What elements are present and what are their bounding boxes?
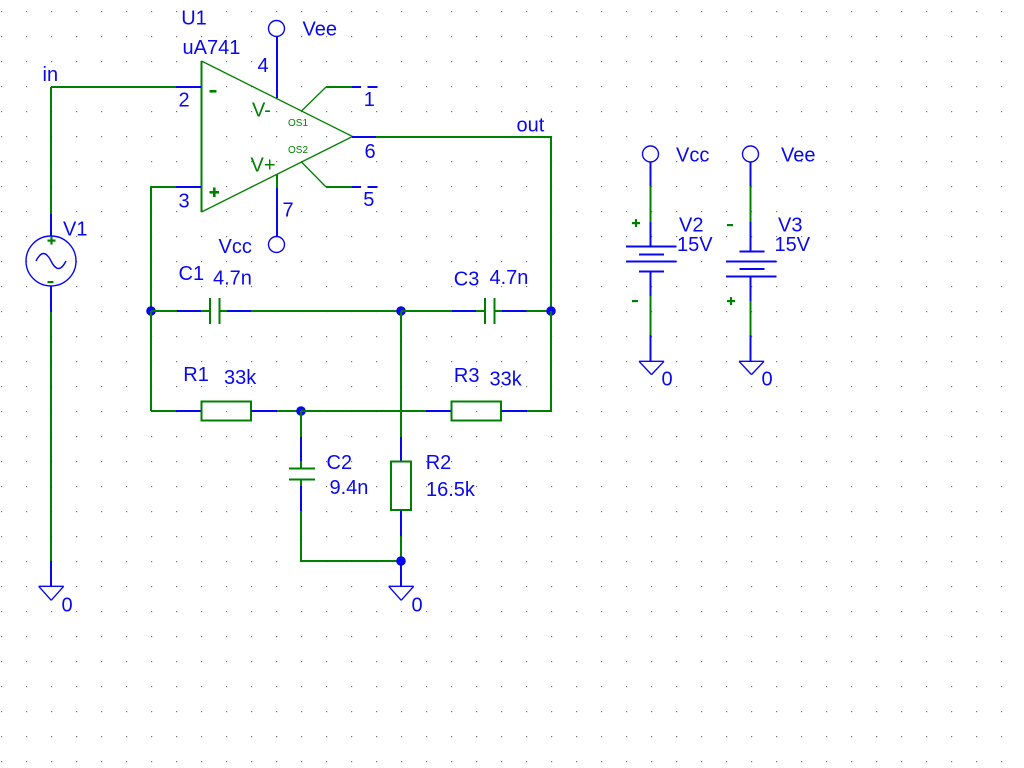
- svg-text:4: 4: [258, 55, 269, 77]
- V2 plus marker: [632, 219, 640, 227]
- battery V2: [626, 162, 677, 361]
- svg-text:V1: V1: [63, 218, 87, 240]
- pin 2 stub: [176, 86, 201, 88]
- svg-text:U1: U1: [181, 7, 207, 29]
- svg-text:33k: 33k: [224, 367, 257, 389]
- svg-text:Vcc: Vcc: [219, 236, 252, 258]
- svg-text:OS1: OS1: [288, 118, 308, 129]
- junction node E: [396, 556, 406, 566]
- svg-text:15V: 15V: [775, 234, 811, 256]
- svg-text:6: 6: [365, 141, 376, 163]
- Vcc terminal circle V2: [643, 146, 659, 162]
- op-amp U1 triangle body: [202, 61, 353, 212]
- V2 minus marker: [632, 300, 638, 302]
- pin 1 lead: [302, 87, 378, 111]
- svg-text:0: 0: [662, 369, 673, 391]
- resistor R2: [391, 437, 411, 561]
- svg-text:4.7n: 4.7n: [490, 267, 529, 289]
- wire node D down to C2: [300, 411, 302, 437]
- wire C2 to ground corner: [300, 511, 401, 562]
- V3 minus marker: [727, 224, 733, 226]
- Vee terminal circle V3: [743, 146, 759, 162]
- Vcc terminal circle bottom: [269, 237, 285, 253]
- V1 minus marker: [48, 281, 54, 283]
- V1 plus marker: [48, 237, 56, 245]
- svg-text:4.7n: 4.7n: [213, 268, 252, 290]
- wire in horizontal: [51, 86, 176, 88]
- capacitor C1: [151, 298, 252, 324]
- resistor R3: [426, 402, 552, 421]
- capacitor C2: [289, 437, 315, 511]
- ground symbol under V3: [739, 361, 764, 374]
- pin 3 stub: [176, 186, 201, 188]
- svg-text:out: out: [517, 115, 545, 137]
- svg-text:R2: R2: [426, 452, 452, 474]
- junction node A: [146, 306, 156, 316]
- V3 plus marker: [727, 297, 735, 305]
- ground symbol under V2: [639, 361, 664, 374]
- svg-text:uA741: uA741: [183, 37, 241, 59]
- junction node D: [296, 406, 306, 416]
- svg-text:Vee: Vee: [303, 19, 337, 41]
- wire C1 to node B: [251, 310, 401, 312]
- svg-text:0: 0: [762, 369, 773, 391]
- wire node C down to R3: [550, 311, 552, 411]
- svg-text:0: 0: [412, 594, 423, 616]
- Vee terminal circle top: [269, 21, 285, 37]
- wire node D to R3: [301, 410, 426, 412]
- svg-text:16.5k: 16.5k: [426, 479, 476, 501]
- wire V1 to ground: [50, 312, 52, 561]
- wire out horizontal: [376, 136, 552, 138]
- svg-text:15V: 15V: [677, 234, 713, 256]
- svg-text:Vcc: Vcc: [676, 145, 709, 167]
- svg-text:C1: C1: [179, 263, 205, 285]
- ground symbol under V1: [39, 561, 64, 600]
- svg-text:9.4n: 9.4n: [330, 477, 369, 499]
- svg-text:1: 1: [364, 89, 375, 111]
- capacitor C3: [401, 298, 551, 324]
- junction node B: [396, 306, 406, 316]
- svg-text:R3: R3: [454, 365, 480, 387]
- svg-text:C3: C3: [454, 269, 480, 291]
- resistor R1: [151, 402, 301, 421]
- svg-text:Vee: Vee: [781, 145, 815, 167]
- junction node C: [546, 306, 556, 316]
- pin 6 stub: [352, 136, 376, 138]
- svg-text:0: 0: [62, 594, 73, 616]
- op-amp minus input marker: [210, 90, 217, 93]
- pin 4 stub: [276, 37, 278, 98]
- svg-text:OS2: OS2: [288, 145, 308, 156]
- svg-text:2: 2: [179, 90, 190, 112]
- svg-text:R1: R1: [183, 364, 209, 386]
- pin 5 lead: [302, 162, 378, 187]
- svg-text:3: 3: [179, 191, 190, 213]
- svg-text:V+: V+: [251, 155, 276, 177]
- pin 7 stub: [276, 174, 278, 236]
- svg-text:5: 5: [363, 189, 374, 211]
- wire in vertical to V1: [50, 87, 52, 214]
- svg-text:V-: V-: [252, 100, 271, 122]
- wire node B down to R2: [400, 311, 402, 437]
- op-amp plus input marker: [210, 188, 220, 198]
- svg-text:C2: C2: [327, 452, 353, 474]
- svg-text:in: in: [43, 64, 59, 86]
- sine source V1: [26, 214, 76, 312]
- wire node A down to R1 row: [150, 311, 152, 411]
- ground symbol under node E: [389, 561, 414, 600]
- svg-text:33k: 33k: [490, 369, 523, 391]
- svg-text:7: 7: [283, 200, 294, 222]
- battery V3: [726, 162, 777, 361]
- pin 3 wire: [151, 186, 176, 311]
- wire out vertical: [550, 137, 552, 311]
